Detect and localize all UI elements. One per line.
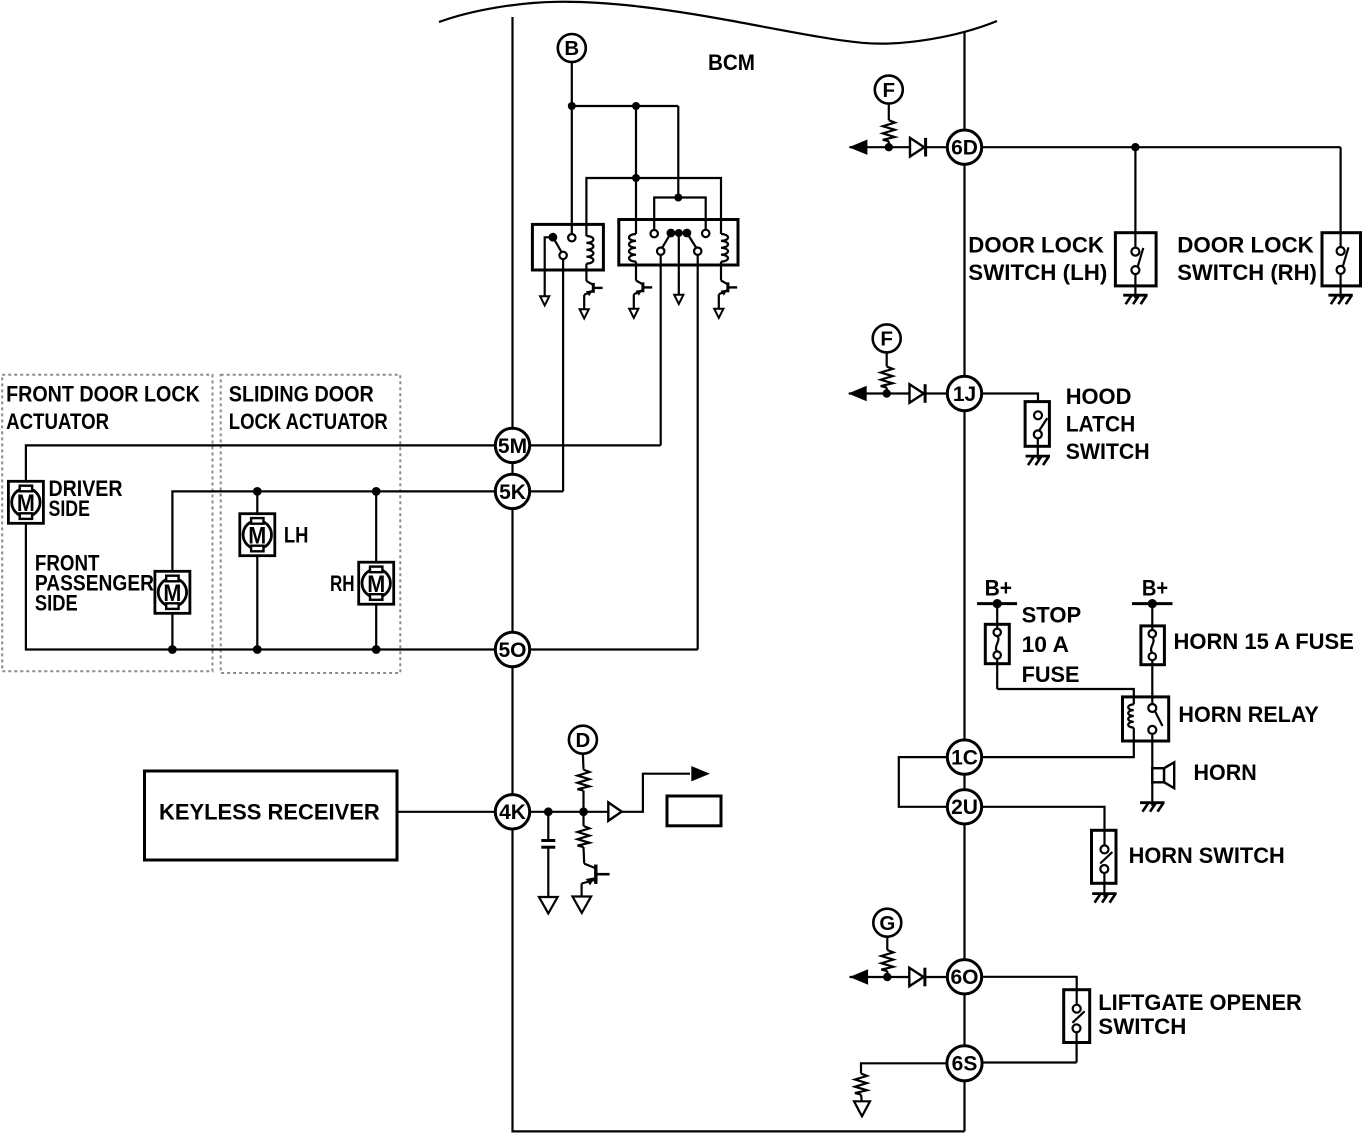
label SLIDING DOOR LOCK ACTUATOR xyxy=(229,382,388,434)
junction dot M3 rail xyxy=(253,645,262,654)
LIFTGATE OPENER SWITCH box xyxy=(1064,990,1090,1043)
svg-text:LOCK ACTUATOR: LOCK ACTUATOR xyxy=(229,409,388,434)
wire: K2 pivot bar down to arrow xyxy=(674,237,683,304)
svg-text:DOOR LOCK: DOOR LOCK xyxy=(1177,233,1314,258)
connector 1C circle xyxy=(947,740,981,774)
wire: 5K right to K1 contact xyxy=(530,490,563,492)
node F circle (6D row) xyxy=(875,76,903,104)
DOOR LOCK SWITCH LH box xyxy=(1115,233,1156,286)
HOOD LATCH SWITCH box xyxy=(1025,402,1049,447)
svg-text:5O: 5O xyxy=(498,639,526,662)
wire: 6S left to pull-down xyxy=(861,1063,947,1073)
LH switch contacts and blade xyxy=(1131,233,1143,296)
svg-text:LIFTGATE OPENER: LIFTGATE OPENER xyxy=(1098,990,1302,1015)
svg-text:F: F xyxy=(883,79,896,102)
HORN RELAY box xyxy=(1123,697,1169,741)
relay K1 pin to B xyxy=(568,234,575,241)
svg-text:B+: B+ xyxy=(985,575,1013,600)
svg-text:SWITCH (RH): SWITCH (RH) xyxy=(1177,260,1317,285)
label DOOR LOCK SWITCH (LH) xyxy=(968,233,1107,285)
relay K1 coil xyxy=(586,236,593,264)
label HOOD LATCH SWITCH xyxy=(1066,384,1150,464)
junction dot LH top xyxy=(253,487,262,496)
svg-text:STOP: STOP xyxy=(1022,602,1082,627)
svg-text:1J: 1J xyxy=(953,383,976,406)
label DRIVER SIDE xyxy=(49,476,123,521)
wire: BCM right edge vertical xyxy=(963,31,965,1131)
resistor R4 xyxy=(881,352,893,393)
svg-text:FUSE: FUSE xyxy=(1022,662,1080,687)
wire: 2U to horn switch xyxy=(982,807,1105,831)
arrow to other circuit (1J row) xyxy=(848,386,867,401)
wire: 1J to hood latch switch xyxy=(982,394,1038,402)
wire: M3 bottom to rail xyxy=(256,556,258,650)
junction dot on coil bus xyxy=(632,174,640,182)
dashed enclosure: SLIDING DOOR LOCK ACTUATOR xyxy=(221,375,401,673)
svg-text:DOOR LOCK: DOOR LOCK xyxy=(968,233,1104,258)
wire: buffer output to internal logic xyxy=(622,774,690,812)
svg-text:B+: B+ xyxy=(1142,575,1168,600)
motor M2 front passenger side xyxy=(155,571,190,613)
wire: K2 contact 1 down to 5M xyxy=(660,255,662,446)
label FRONT PASSENGER SIDE xyxy=(35,551,154,616)
ground (hood latch switch) xyxy=(1026,456,1050,465)
power B+ terminal 1 xyxy=(977,575,1017,608)
relay K2 switch 1 pivot and blade xyxy=(657,229,675,255)
motor M1 driver side xyxy=(8,481,43,523)
HORN SWITCH box xyxy=(1092,830,1117,883)
KEYLESS RECEIVER box xyxy=(145,771,398,860)
arrow to other circuit (6O row) xyxy=(850,969,869,984)
wire: BCM bottom edge xyxy=(513,1130,965,1132)
relay K2 (double door-lock relay) box xyxy=(619,220,738,266)
internal logic block box xyxy=(667,796,721,826)
svg-text:HORN RELAY: HORN RELAY xyxy=(1178,702,1318,727)
power B+ terminal 2 xyxy=(1132,575,1173,608)
wire: M2 bottom to rail xyxy=(171,613,173,649)
junction dot 1J row xyxy=(883,389,891,397)
svg-text:HOOD: HOOD xyxy=(1066,384,1132,409)
relay K1 (door lock relay) box xyxy=(532,224,603,270)
wire: 6O to liftgate switch xyxy=(982,977,1077,990)
svg-text:SWITCH: SWITCH xyxy=(1066,439,1150,464)
svg-text:SWITCH: SWITCH xyxy=(1098,1014,1186,1039)
ground (LH door lock switch) xyxy=(1123,295,1147,304)
wire: horn relay contact down to horn xyxy=(1151,734,1153,803)
svg-text:LATCH: LATCH xyxy=(1066,411,1136,436)
svg-text:D: D xyxy=(575,729,590,752)
svg-text:BCM: BCM xyxy=(708,50,755,75)
buffer U1 (input buffer) xyxy=(608,802,621,820)
wire: drop from B bus to contact bracket xyxy=(677,106,679,198)
liftgate switch contacts and blade xyxy=(1072,990,1084,1063)
wire: B down to junction xyxy=(571,62,573,238)
svg-text:RH: RH xyxy=(330,571,355,596)
connector 5O circle xyxy=(495,632,529,666)
ground (horn switch) xyxy=(1092,894,1116,903)
wire: LH motor top to 5K line xyxy=(256,491,258,513)
svg-text:G: G xyxy=(879,912,895,935)
junction dot at B bus mid xyxy=(632,102,640,110)
svg-text:6O: 6O xyxy=(950,966,978,989)
horn relay switch xyxy=(1148,704,1162,734)
relay K2 switch 2 pivot and blade xyxy=(683,229,702,255)
wire: 1C-2U left loop xyxy=(899,757,948,807)
fuse STOP 10 A FUSE xyxy=(985,604,1009,689)
wire: RH motor top to 5K line xyxy=(375,491,377,562)
junction dot at B bus left xyxy=(568,102,576,110)
node F circle (1J row) xyxy=(873,324,901,352)
horn switch contacts and blade xyxy=(1100,830,1112,893)
wire: BCM left edge vertical xyxy=(511,17,513,1133)
svg-text:6S: 6S xyxy=(952,1053,978,1076)
wire: 6D row horizontal xyxy=(850,146,911,148)
relay K1 switch pivot and blade xyxy=(545,233,567,270)
relay K2 right coil xyxy=(721,234,728,281)
wire: receiver to 4K xyxy=(397,811,495,813)
connector 5M circle xyxy=(495,428,529,462)
wire: liftgate switch to 6S xyxy=(983,1061,1077,1063)
svg-text:2U: 2U xyxy=(951,796,978,819)
svg-text:1C: 1C xyxy=(951,747,978,770)
junction dot M2 rail xyxy=(168,645,177,654)
svg-text:SIDE: SIDE xyxy=(35,590,78,615)
hood latch contacts and blade xyxy=(1034,411,1048,456)
wire: K1 contact down to 5K xyxy=(562,259,564,491)
transistor Q1 (K1 coil driver) xyxy=(580,281,603,318)
svg-text:5K: 5K xyxy=(499,481,526,504)
label DOOR LOCK SWITCH (RH) xyxy=(1177,233,1317,285)
label STOP 10 A FUSE xyxy=(1022,602,1082,687)
arrow to other circuit (6D row) xyxy=(849,140,868,155)
wire: 4K right bus xyxy=(530,811,609,813)
connector 6O circle xyxy=(947,960,981,994)
RH switch contacts and blade xyxy=(1337,233,1349,296)
DOOR LOCK SWITCH RH box xyxy=(1322,233,1361,286)
wire: K1 coil bottom out xyxy=(585,264,587,281)
transistor Q2 (K2 left coil driver) xyxy=(629,281,652,318)
wire: coil bottom to 1C xyxy=(982,728,1134,758)
connector 2U circle xyxy=(947,790,981,824)
dashed enclosure: FRONT DOOR LOCK ACTUATOR xyxy=(2,375,212,672)
wire: M1 bottom to ground rail xyxy=(26,523,495,649)
diode D1 xyxy=(910,138,947,157)
label LIFTGATE OPENER SWITCH xyxy=(1098,990,1302,1039)
resistor R3 xyxy=(883,104,895,148)
arrow under K1 pivot xyxy=(540,270,549,305)
wire: B-row horizontal bus xyxy=(572,105,679,107)
svg-text:FRONT DOOR LOCK: FRONT DOOR LOCK xyxy=(6,382,200,407)
relay K2 left coil xyxy=(629,234,636,281)
junction dot M4 rail xyxy=(372,645,381,654)
ground (horn) xyxy=(1140,803,1164,812)
connector 4K circle xyxy=(495,795,529,829)
relay K2 bracket pin left xyxy=(651,230,658,237)
svg-text:ACTUATOR: ACTUATOR xyxy=(6,409,109,434)
svg-text:6D: 6D xyxy=(951,137,978,160)
svg-text:SWITCH (LH): SWITCH (LH) xyxy=(968,260,1107,285)
label FRONT DOOR LOCK ACTUATOR xyxy=(6,382,200,434)
resistor R2 (base resistor) xyxy=(578,812,590,864)
junction dot resistor tap xyxy=(579,807,588,816)
ground arrow under C1 xyxy=(539,897,558,913)
connector 6S circle xyxy=(947,1046,982,1081)
svg-text:4K: 4K xyxy=(499,801,526,824)
wire: K2 contact 2 down to 5O xyxy=(697,255,699,650)
resistor R5 xyxy=(881,937,893,977)
wire: coil bus horizontal xyxy=(586,178,721,236)
diode D3 xyxy=(909,968,947,987)
wire: down to LH switch xyxy=(1134,147,1136,233)
junction dot 6D row xyxy=(885,143,893,151)
wire: down to RH switch xyxy=(1339,147,1341,233)
transistor Q4 (keyless input) xyxy=(573,864,610,913)
transistor Q3 (K2 right coil driver) xyxy=(714,281,737,318)
wire: 5O right to K2 contact 2 xyxy=(530,648,698,650)
node B circle xyxy=(558,34,586,62)
svg-text:HORN SWITCH: HORN SWITCH xyxy=(1129,843,1285,868)
svg-text:SIDE: SIDE xyxy=(49,496,90,521)
svg-text:HORN: HORN xyxy=(1194,760,1257,785)
capacitor C1 xyxy=(541,812,555,897)
wire: 6D to door lock switches xyxy=(982,146,1341,148)
svg-text:10 A: 10 A xyxy=(1022,632,1069,657)
wire and ground arrow under R6 xyxy=(854,1095,870,1117)
junction dot 6O row xyxy=(883,973,891,981)
svg-text:HORN 15 A FUSE: HORN 15 A FUSE xyxy=(1174,629,1354,654)
relay K2 pivot bar xyxy=(671,229,687,237)
junction dot RH top xyxy=(372,487,381,496)
svg-text:KEYLESS RECEIVER: KEYLESS RECEIVER xyxy=(159,799,380,824)
svg-text:5M: 5M xyxy=(498,435,527,458)
junction dot LH switch branch xyxy=(1131,143,1139,151)
node G circle xyxy=(873,909,901,937)
diode D2 xyxy=(910,384,948,403)
relay K2 bracket pin right xyxy=(702,230,709,237)
motor M4 RH xyxy=(359,562,394,604)
svg-text:B: B xyxy=(564,37,579,60)
wire: 5K left branch xyxy=(172,491,495,571)
wire: 5M right to K2 contact 1 xyxy=(530,444,661,446)
resistor R6 (pull-down) xyxy=(855,1074,867,1095)
connector 1J circle xyxy=(947,376,981,410)
resistor R1 (pull-up to D) xyxy=(578,754,590,812)
motor M3 LH xyxy=(240,514,275,556)
connector 5K circle xyxy=(495,474,529,508)
connector 6D circle xyxy=(947,130,981,164)
wire: 6O row horizontal xyxy=(850,976,910,978)
wire: drop from B bus to coil bus xyxy=(635,106,637,234)
junction dot on bracket xyxy=(674,194,682,202)
fuse HORN 15 A FUSE xyxy=(1141,604,1165,704)
ground (RH door lock switch) xyxy=(1328,295,1352,304)
horn relay coil xyxy=(1128,704,1134,727)
junction dot capacitor tap xyxy=(544,807,553,816)
horn (speaker symbol) xyxy=(1152,762,1174,788)
wire: M4 bottom to rail xyxy=(375,604,377,649)
svg-text:F: F xyxy=(880,328,893,351)
wire: 5M left to driver-side motor xyxy=(26,445,495,481)
signal arrow to BCM logic xyxy=(691,766,710,781)
svg-text:SLIDING DOOR: SLIDING DOOR xyxy=(229,382,374,407)
wire: contact bracket over relay 2 xyxy=(654,198,706,234)
wire: stop fuse to horn relay coil xyxy=(997,689,1134,704)
wire: 1J row horizontal xyxy=(849,392,910,394)
node D circle xyxy=(569,726,597,754)
BCM module torn-edge top border xyxy=(439,2,997,44)
svg-text:LH: LH xyxy=(284,522,309,547)
